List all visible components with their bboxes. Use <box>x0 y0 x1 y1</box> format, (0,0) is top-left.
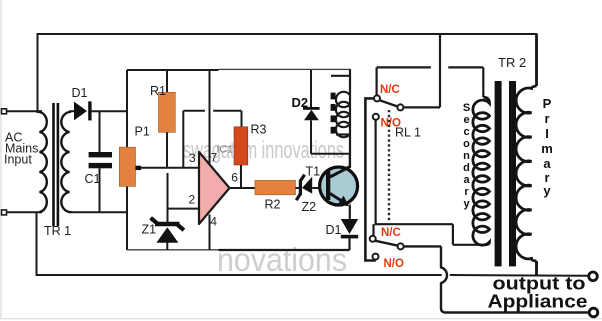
wire AC bottom terminal to TR1 primary bottom <box>6 211 41 213</box>
wire S1 NC cross-link down to S2 NO <box>365 98 374 260</box>
label D2 <box>292 95 309 110</box>
switch S1 NO contact <box>373 114 379 120</box>
relay coil RL1 <box>331 69 350 168</box>
wire pin3 node up to feedback rail <box>182 111 184 168</box>
zener Z1 <box>151 218 184 250</box>
switch S2 NC contact <box>370 236 376 242</box>
resistor R2 <box>255 180 296 194</box>
wire P1 wiper to op-amp pin 3 <box>141 167 199 169</box>
dotted actuator link <box>388 110 390 222</box>
wire inner top rail <box>127 69 219 71</box>
wire inner left edge upper (to P1 top) <box>126 70 128 148</box>
wire top rail <box>38 33 537 35</box>
label Primary (vertical) <box>541 96 553 198</box>
wire AC top terminal to TR1 primary top <box>6 110 41 112</box>
wire feedback rail (hops over pin7 wire) <box>183 111 241 127</box>
svg-text:P: P <box>543 96 552 111</box>
wire left bottom vertical to bottom rail <box>36 212 38 275</box>
wire op-amp pin 2 <box>168 208 199 210</box>
svg-text:novations: novations <box>217 241 347 278</box>
pin 7 <box>211 151 218 165</box>
svg-text:n: n <box>463 150 470 162</box>
wire left vertical from top rail to AC top terminal <box>37 34 39 112</box>
wire pin 4 to inner bottom rail <box>209 215 211 251</box>
wire op-amp output pin 6 to R2 <box>228 187 255 189</box>
svg-text:R3: R3 <box>251 123 267 137</box>
watermark novations <box>217 241 347 278</box>
svg-text:3: 3 <box>189 151 196 165</box>
svg-text:N/C: N/C <box>380 84 400 96</box>
label output to Appliance <box>488 273 588 312</box>
relay core dashed <box>331 93 336 134</box>
node AC input terminal top <box>2 109 7 114</box>
wire TR1 secondary top to D1 <box>69 110 74 112</box>
label Secondary (vertical) <box>463 102 471 210</box>
pin 6 <box>231 171 238 185</box>
node output terminal top <box>589 272 598 281</box>
wire S1 NO down to junction and S2 NC <box>374 120 488 245</box>
svg-text:TR 1: TR 1 <box>44 224 71 238</box>
svg-text:D2: D2 <box>292 95 309 110</box>
svg-text:r: r <box>464 186 469 198</box>
switch S1 blade <box>379 100 398 107</box>
label N/C top <box>380 84 400 96</box>
diode D1 (freewheel lower) <box>341 219 358 250</box>
wire S2 pole to output bottom (with hop over bottom rail) <box>404 246 589 312</box>
svg-text:P1: P1 <box>135 125 150 139</box>
diode D1 <box>74 101 92 120</box>
switch S1 pole contact <box>397 104 403 110</box>
pin 3 <box>189 151 196 165</box>
wire T1 emitter down to D1 <box>349 205 351 220</box>
switch S1 NC contact <box>374 95 380 101</box>
label N/C bottom <box>381 227 401 239</box>
svg-text:7: 7 <box>211 151 218 165</box>
label D1 lower <box>326 223 342 237</box>
svg-text:Input: Input <box>4 153 32 167</box>
node AC input terminal bottom <box>2 210 7 215</box>
label R2 <box>265 198 281 212</box>
svg-text:c: c <box>463 126 469 138</box>
transformer TR1 secondary winding <box>61 111 69 212</box>
wire pin 7 supply <box>209 70 211 165</box>
label R1 <box>150 84 166 98</box>
switch S2 pole contact <box>398 243 404 249</box>
label D1 <box>72 86 88 100</box>
wire S1 pole to top rail <box>403 34 440 107</box>
svg-text:C1: C1 <box>85 172 101 186</box>
label T1 <box>306 165 321 179</box>
svg-text:6: 6 <box>231 171 238 185</box>
op-amp U1 <box>199 152 230 224</box>
svg-text:RL 1: RL 1 <box>395 126 421 140</box>
svg-text:a: a <box>543 156 551 171</box>
svg-text:y: y <box>543 183 551 198</box>
label C1 <box>85 172 101 186</box>
label N/O bottom <box>384 258 405 270</box>
label R3 <box>251 123 267 137</box>
svg-text:N/O: N/O <box>384 258 405 270</box>
svg-text:2: 2 <box>189 193 196 207</box>
switch S2 blade <box>375 241 399 246</box>
svg-text:T1: T1 <box>306 165 321 179</box>
watermark swagatam innovations <box>183 137 344 164</box>
zener Z2 <box>296 175 328 201</box>
svg-text:d: d <box>463 162 470 174</box>
svg-text:m: m <box>541 141 553 156</box>
svg-text:I: I <box>545 126 549 141</box>
label TR 2 <box>498 55 526 70</box>
svg-text:S: S <box>463 102 470 114</box>
label AC Mains Input <box>4 131 38 167</box>
svg-text:a: a <box>463 174 470 186</box>
wire TR1 secondary bottom to inner box corner <box>69 211 127 213</box>
svg-text:Appliance: Appliance <box>488 291 588 312</box>
pin 4 <box>210 215 217 229</box>
svg-text:N/C: N/C <box>381 227 401 239</box>
wire inner bottom rail <box>127 249 219 251</box>
transformer TR2 primary winding <box>516 34 536 275</box>
wire zener branch (gap below pin3 wire) down through pin2 to Z1 <box>167 173 169 223</box>
svg-text:o: o <box>463 138 470 150</box>
svg-text:Z1: Z1 <box>142 223 157 237</box>
transistor T1 <box>320 167 358 207</box>
wire D1 cathode to inner box left edge <box>92 110 127 112</box>
svg-text:TR 2: TR 2 <box>498 55 526 70</box>
svg-text:D1: D1 <box>326 223 342 237</box>
transformer TR1 core <box>52 103 59 226</box>
label Z2 <box>302 200 317 214</box>
svg-text:IC1: IC1 <box>217 144 234 156</box>
label IC1 <box>217 144 234 156</box>
switch S2 NO contact <box>373 254 379 260</box>
preset P1 <box>119 147 141 186</box>
pin 2 <box>189 193 196 207</box>
svg-text:e: e <box>463 114 469 126</box>
node output terminal bottom <box>589 308 598 317</box>
svg-text:4: 4 <box>210 215 217 229</box>
wire bottom rail <box>37 274 441 276</box>
wire NC rail to TR2 secondary top (gap at x440) <box>377 67 484 97</box>
label N/O top <box>381 118 402 130</box>
label Z1 <box>142 223 157 237</box>
resistor R1 <box>159 70 176 168</box>
transformer TR2 core <box>495 81 516 266</box>
transformer TR2 secondary winding <box>473 97 490 245</box>
resistor R3 <box>234 127 248 188</box>
label P1 <box>135 125 150 139</box>
svg-text:R2: R2 <box>265 198 281 212</box>
wire inner left edge lower (P1 bottom to inner bottom rail) <box>126 186 128 250</box>
wire T1 collector up <box>349 155 351 169</box>
inner supply box wires <box>127 69 351 250</box>
svg-text:y: y <box>463 198 470 210</box>
wire S1 NC up to secondary feed wire <box>376 67 378 95</box>
label RL 1 <box>395 126 421 140</box>
transformer TR1 primary winding <box>40 111 47 212</box>
capacitor C1 <box>89 111 112 212</box>
svg-text:Z2: Z2 <box>302 200 317 214</box>
label TR 1 <box>44 224 71 238</box>
diode D2 <box>303 70 350 154</box>
svg-text:R1: R1 <box>150 84 166 98</box>
svg-text:D1: D1 <box>72 86 88 100</box>
svg-text:r: r <box>544 111 549 126</box>
